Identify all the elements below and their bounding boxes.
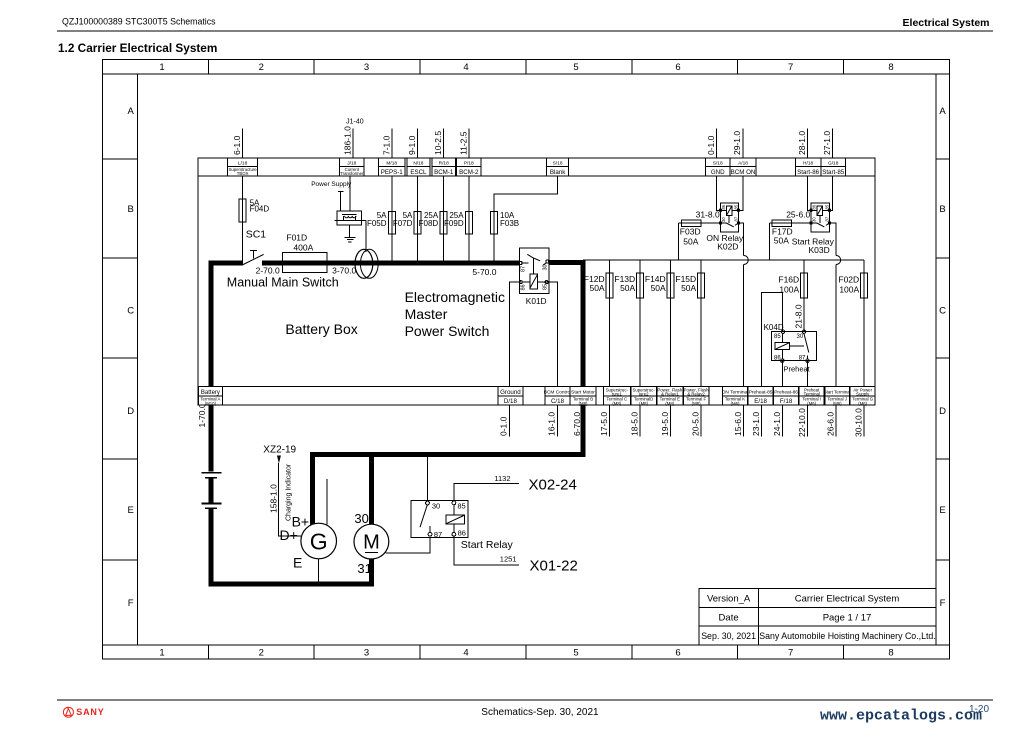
svg-text:H/18: H/18 [803, 160, 813, 166]
svg-text:29-1.0: 29-1.0 [732, 131, 742, 155]
svg-text:87: 87 [799, 356, 806, 362]
svg-text:BCM-2: BCM-2 [459, 169, 479, 176]
title block table [699, 589, 936, 645]
svg-text:Start Terminal: Start Terminal [824, 390, 851, 395]
svg-text:85: 85 [824, 204, 829, 209]
wire K02D pin87 to ON Terminal with hop [739, 223, 744, 256]
wire K01D pin85 to BCM Control cell [547, 282, 558, 437]
svg-text:10-2.5: 10-2.5 [433, 131, 443, 155]
svg-text:BCM Control: BCM Control [544, 390, 571, 396]
column dividers top band [208, 60, 843, 75]
svg-text:F08D: F08D [419, 219, 439, 228]
svg-text:Sany Automobile Hoisting Machi: Sany Automobile Hoisting Machinery Co.,L… [759, 631, 936, 641]
svg-text:(M8): (M8) [665, 401, 674, 406]
svg-text:1132: 1132 [494, 474, 510, 483]
svg-text:F07D: F07D [393, 219, 413, 228]
fuse F04D wire [241, 158, 243, 262]
grid row letters left [127, 106, 134, 609]
svg-text:F: F [940, 598, 946, 609]
svg-text:5: 5 [573, 62, 578, 73]
svg-text:27-1.0: 27-1.0 [822, 131, 832, 155]
svg-text:X02-24: X02-24 [529, 476, 577, 493]
grommet through battery box wall [355, 249, 373, 278]
wire stub 29-1.0 [742, 129, 744, 160]
fuse F17D [772, 220, 791, 227]
svg-text:50A: 50A [683, 236, 698, 246]
svg-text:15-6.0: 15-6.0 [733, 412, 743, 436]
svg-text:85: 85 [774, 334, 781, 340]
wire Start-85 to K03D [830, 158, 833, 210]
svg-text:23-1.0: 23-1.0 [751, 412, 761, 436]
svg-text:D: D [127, 406, 134, 417]
svg-text:Date: Date [719, 612, 739, 623]
start relay pin 30 [426, 501, 430, 505]
svg-text:5: 5 [573, 648, 578, 659]
fuse F01D 400A [282, 253, 327, 273]
start relay blade [420, 505, 427, 527]
svg-text:K02D: K02D [717, 242, 738, 252]
fuse F12D wire [608, 260, 610, 437]
svg-text:85: 85 [542, 284, 548, 290]
fuse F02D wire [863, 260, 865, 437]
svg-text:G: G [310, 529, 328, 555]
fuse F07D wire [417, 158, 419, 262]
svg-text:186-1.0: 186-1.0 [342, 126, 352, 155]
wire 1132 to X02-24 [454, 484, 519, 501]
connector P/18 BCM-2 [457, 158, 482, 176]
battery cell link [209, 478, 214, 502]
svg-text:E/18: E/18 [754, 398, 767, 405]
thick bus K01D to corner [548, 260, 585, 265]
svg-text:A: A [128, 106, 135, 117]
svg-text:4: 4 [463, 648, 468, 659]
svg-text:5-70.0: 5-70.0 [472, 267, 496, 277]
svg-text:A: A [939, 106, 946, 117]
svg-text:Manual Main Switch: Manual Main Switch [227, 276, 339, 290]
fuse F05D wire [391, 158, 393, 262]
bottom connector strip top line [198, 386, 875, 388]
svg-text:F03D: F03D [680, 226, 701, 236]
relay K01D box [519, 248, 548, 294]
svg-text:J/18: J/18 [347, 160, 356, 166]
relay K03D box [811, 203, 830, 232]
svg-text:X01-22: X01-22 [530, 557, 578, 574]
svg-text:M: M [363, 532, 380, 554]
svg-text:C: C [127, 306, 134, 317]
svg-text:F04D: F04D [250, 205, 270, 214]
svg-text:6: 6 [675, 648, 680, 659]
svg-text:QZJ100000389 STC300T5 Schemati: QZJ100000389 STC300T5 Schematics [62, 17, 216, 27]
fuse F04D [239, 199, 246, 222]
start relay pin 85 [452, 501, 456, 505]
grid column numbers bottom [159, 648, 893, 659]
svg-text:(M6): (M6) [807, 401, 816, 406]
fuse F03D [682, 220, 701, 227]
drawing frame outer border [103, 60, 950, 660]
wire K04D pin86 to Preheat-86 cell [781, 361, 783, 437]
bottom connector Power Flash Relay2 Terminal F [683, 387, 709, 406]
power supply terminal tick [338, 190, 343, 192]
generator G [301, 523, 337, 559]
svg-text:25-6.0: 25-6.0 [786, 209, 810, 219]
start relay pin 87 [428, 532, 432, 536]
svg-text:Power Switch: Power Switch [405, 323, 490, 339]
starter motor M [354, 524, 389, 559]
relay K04D coil [775, 342, 789, 349]
fuse F09D [465, 212, 472, 235]
svg-text:86: 86 [521, 284, 527, 290]
svg-text:1251: 1251 [500, 554, 517, 563]
wire stub 9-1.0 [417, 129, 419, 160]
grid column numbers top [159, 62, 893, 73]
svg-text:(M8): (M8) [579, 401, 588, 406]
svg-text:Page 1 / 17: Page 1 / 17 [823, 612, 872, 623]
wire stub 7-1.0 [391, 129, 393, 160]
battery plate long top [201, 472, 221, 474]
svg-text:S/18: S/18 [713, 160, 723, 166]
grid row letters right [939, 106, 946, 609]
relay K01D pin 85 [545, 281, 548, 284]
svg-text:Sep. 30, 2021: Sep. 30, 2021 [701, 631, 756, 641]
fuse F12D [606, 273, 613, 298]
bottom connector ON Terminal K [722, 387, 749, 406]
svg-text:S/18: S/18 [553, 160, 563, 166]
SANY logo mark [63, 707, 73, 717]
relay K01D pin 87 [519, 262, 522, 265]
svg-text:D: D [939, 406, 946, 417]
svg-text:2-70.0: 2-70.0 [256, 265, 280, 275]
svg-text:9-1.0: 9-1.0 [407, 135, 417, 155]
svg-text:(M8): (M8) [639, 401, 648, 406]
svg-text:100A: 100A [839, 284, 859, 294]
connector J/18 Current Transformer [340, 158, 364, 176]
svg-text:(M6): (M6) [731, 401, 740, 406]
svg-text:0-1.0: 0-1.0 [706, 135, 716, 155]
svg-text:E: E [293, 555, 302, 571]
svg-text:6: 6 [675, 62, 680, 73]
svg-text:3: 3 [364, 648, 369, 659]
svg-text:L/18: L/18 [238, 160, 248, 166]
svg-text:ON Terminal: ON Terminal [722, 390, 749, 396]
svg-text:7: 7 [788, 62, 793, 73]
wire 25-6.0 [772, 222, 811, 224]
ground symbol [348, 225, 350, 238]
bottom connector Start Terminal J [824, 387, 851, 406]
bottom connector BCM Control C/18 [544, 387, 571, 406]
svg-text:K04D: K04D [764, 323, 784, 332]
fuse F16D [801, 273, 808, 298]
svg-text:ESCL: ESCL [410, 169, 427, 176]
drawing frame inner border [138, 74, 937, 645]
wire K04D pin87 to Preheat Terminal cell [807, 361, 809, 437]
svg-text:C: C [939, 306, 946, 317]
svg-text:J1-40: J1-40 [346, 118, 364, 125]
svg-text:16-1.0: 16-1.0 [547, 412, 557, 436]
svg-text:Terminal: Terminal [804, 391, 820, 396]
svg-text:B: B [128, 204, 134, 215]
svg-text:24-1.0: 24-1.0 [772, 412, 782, 436]
svg-text:31-8.0: 31-8.0 [696, 209, 720, 219]
svg-text:1-70.0: 1-70.0 [197, 403, 207, 427]
svg-text:F03B: F03B [500, 219, 519, 228]
svg-text:F05D: F05D [367, 219, 387, 228]
thick wire start motor cable vertical [581, 260, 586, 457]
svg-text:Supply: Supply [856, 391, 870, 396]
svg-text:M/18: M/18 [386, 160, 397, 166]
svg-text:(M8): (M8) [612, 401, 621, 406]
relay K04D pins [781, 330, 784, 333]
connector S/18 GND [706, 158, 731, 176]
svg-text:D+: D+ [280, 527, 298, 543]
relay K03D coil [817, 206, 822, 216]
svg-text:1: 1 [159, 648, 164, 659]
wire stub 11-2.5 [468, 129, 470, 160]
svg-text:2: 2 [259, 648, 264, 659]
fuse F03B wire [494, 172, 558, 262]
wire 158-1.0 to D+ [279, 463, 301, 536]
fuse F17D feed from rail [768, 223, 770, 260]
svg-text:158-1.0: 158-1.0 [269, 484, 279, 513]
svg-text:P/18: P/18 [464, 160, 474, 166]
svg-text:BCM-1: BCM-1 [434, 169, 454, 176]
connector R/18 BCM-1 [432, 158, 456, 176]
svg-text:50A: 50A [620, 283, 635, 293]
svg-text:ture1: ture1 [612, 391, 622, 396]
relay K02D pins [719, 209, 721, 211]
svg-text:(M10): (M10) [205, 401, 217, 406]
start relay box [411, 501, 468, 538]
bottom connector Battery Terminal A [198, 387, 222, 406]
svg-text:BCM ON: BCM ON [731, 169, 756, 176]
svg-text:30: 30 [797, 334, 804, 340]
svg-text:30: 30 [354, 511, 368, 526]
svg-text:17-5.0: 17-5.0 [599, 412, 609, 436]
feed rail after master switch [583, 259, 864, 261]
svg-text:30: 30 [432, 502, 440, 511]
svg-text:86: 86 [774, 356, 781, 362]
fuse F15D wire [700, 260, 702, 437]
svg-text:1.2 Carrier Electrical System: 1.2 Carrier Electrical System [58, 41, 217, 55]
bottom connector Ground D/18 [498, 387, 523, 406]
wire GND to K02D [716, 158, 720, 210]
wire K03D pin87 to Start Terminal with hop [830, 223, 837, 256]
bottom connector Superstructure1 Terminal C [603, 387, 630, 406]
svg-text:XZ2-19: XZ2-19 [263, 445, 296, 456]
svg-text:50A: 50A [774, 235, 789, 245]
wire stub 10-2.5 [443, 129, 445, 160]
wire 1251 to X01-22 [454, 536, 519, 565]
fuse F07D [414, 212, 421, 235]
wire stub 0-1.0 top [715, 129, 717, 160]
relay K04D box [772, 332, 817, 361]
svg-text:30-10.0: 30-10.0 [854, 408, 864, 437]
svg-text:85: 85 [733, 204, 738, 209]
wire rail to start relay pin30 [427, 457, 429, 502]
connector M/18 PEPS-1 [378, 158, 405, 176]
svg-text:Start Relay: Start Relay [461, 539, 514, 551]
svg-text:Start-85: Start-85 [822, 169, 845, 176]
bottom connector Superstructure2 Terminal D [631, 387, 656, 406]
wire G to ground rail [318, 559, 320, 584]
bottom connector Preheat-85 E/18 [748, 387, 773, 406]
svg-text:Preheat-85: Preheat-85 [749, 390, 773, 396]
footer rule [57, 699, 993, 701]
svg-text:SC1: SC1 [246, 229, 267, 241]
svg-text:50A: 50A [681, 283, 696, 293]
svg-text:86: 86 [811, 204, 816, 209]
svg-text:E: E [939, 505, 945, 516]
bottom connector Air Power Supply Terminal G [850, 387, 875, 406]
fuse F03D feed from rail [678, 223, 680, 260]
svg-text:F02D: F02D [838, 274, 859, 284]
connector G/18 Start-85 [821, 158, 846, 176]
svg-text:31: 31 [357, 561, 371, 576]
svg-text:Carrier Electrical System: Carrier Electrical System [795, 594, 900, 605]
wire stub 186-1.0 [352, 129, 354, 172]
fuse F15D [698, 273, 705, 298]
svg-text:PEPS-1: PEPS-1 [381, 169, 404, 176]
svg-text:ture2: ture2 [639, 391, 649, 396]
svg-text:85: 85 [457, 502, 465, 511]
thick bus switch to K01D [262, 261, 520, 266]
svg-text:K03D: K03D [809, 245, 830, 255]
relay K01D coil [530, 274, 538, 289]
svg-text:F09D: F09D [444, 219, 464, 228]
bottom connector Power Flash Relay1 Terminal E [657, 387, 683, 406]
svg-text:SANY: SANY [76, 707, 104, 717]
current transformer box [337, 211, 362, 225]
svg-text:21-8.0: 21-8.0 [793, 304, 803, 328]
svg-text:Transformer: Transformer [340, 171, 364, 176]
svg-text:86: 86 [721, 204, 726, 209]
svg-text:400A: 400A [293, 243, 313, 253]
wire K01D pin86 to Ground cell [510, 282, 521, 437]
svg-text:30: 30 [811, 217, 816, 222]
relay K02D box [721, 203, 739, 232]
thick wire B+ drop to G [310, 452, 315, 525]
svg-text:22-10.0: 22-10.0 [797, 408, 807, 437]
svg-text:Preheat-86: Preheat-86 [774, 390, 798, 396]
svg-text:Preheat: Preheat [784, 364, 811, 373]
svg-text:87: 87 [434, 530, 442, 539]
thick wire lower rail to B+ [310, 452, 585, 457]
fuse F05D [388, 212, 395, 235]
svg-text:Start Motor: Start Motor [571, 390, 595, 396]
bottom connector Preheat Terminal I [799, 387, 824, 406]
wire BCM ON to K02D [739, 158, 744, 210]
header rule [57, 30, 993, 32]
svg-text:R/18: R/18 [439, 160, 449, 166]
wire 31-8.0 [681, 222, 721, 224]
svg-text:Blank: Blank [550, 169, 566, 176]
svg-text:87: 87 [521, 266, 527, 272]
svg-text:2: 2 [259, 62, 264, 73]
svg-text:C/18: C/18 [551, 398, 565, 405]
svg-text:E: E [128, 505, 134, 516]
fuse F14D [667, 273, 674, 298]
thick bus battery to switch [209, 261, 244, 266]
battery plate short top [205, 477, 217, 479]
wire J/18 to transformer [349, 172, 351, 211]
relay K04D blade [804, 333, 809, 352]
thick bottom ground rail [209, 582, 374, 587]
battery plate short bottom [205, 507, 217, 509]
relay K02D coil [727, 206, 732, 216]
svg-text:8: 8 [888, 62, 893, 73]
svg-text:& Relay1: & Relay1 [661, 391, 679, 396]
wire transformer to bus [335, 219, 366, 221]
wire Start-86 to K03D [807, 158, 811, 210]
svg-text:20-5.0: 20-5.0 [691, 412, 701, 436]
svg-text:50A: 50A [651, 283, 666, 293]
svg-text:(M8): (M8) [692, 401, 701, 406]
fuse F08D [440, 212, 447, 235]
svg-text:87: 87 [824, 216, 829, 221]
svg-text:26-6.0: 26-6.0 [826, 412, 836, 436]
wire stub 27-1.0 [832, 129, 834, 160]
circuit enclosure box [198, 158, 875, 405]
fuse F08D wire [443, 158, 445, 262]
thick wire drop to M [369, 452, 374, 525]
svg-text:Electromagnetic: Electromagnetic [405, 289, 505, 305]
thick wire battery negative [209, 509, 214, 586]
svg-text:(M6): (M6) [858, 401, 867, 406]
svg-text:(M6): (M6) [833, 401, 842, 406]
wire stub 6-1.0 [241, 129, 243, 160]
connector N/18 ESCL [407, 158, 430, 176]
row dividers left band [103, 159, 138, 560]
svg-text:K01D: K01D [526, 296, 547, 306]
arrow head [277, 456, 281, 464]
svg-text:4: 4 [463, 62, 468, 73]
row dividers right band [936, 159, 950, 560]
svg-text:19-5.0: 19-5.0 [660, 412, 670, 436]
top connector strip bottom line [198, 175, 875, 177]
svg-text:1: 1 [159, 62, 164, 73]
connector S/18 Blank [547, 158, 569, 176]
frame corner ties [103, 73, 138, 75]
start relay pin 86 [452, 532, 456, 536]
relay K04D armature [789, 345, 804, 347]
svg-text:8: 8 [888, 648, 893, 659]
svg-text:N/18: N/18 [413, 160, 423, 166]
connector A/18 BCM ON [730, 158, 756, 176]
svg-text:Schematics-Sep. 30, 2021: Schematics-Sep. 30, 2021 [481, 707, 599, 718]
svg-text:7-1.0: 7-1.0 [381, 135, 391, 155]
fuse F14D wire [670, 260, 672, 437]
fuse F13D wire [639, 260, 641, 437]
svg-text:F01D: F01D [286, 232, 307, 242]
fuse F02D [861, 273, 868, 298]
svg-text:G/18: G/18 [828, 160, 839, 166]
bottom connector Start Motor Terminal B [570, 387, 596, 406]
wire K04D pin85 to Preheat-85 cell [762, 293, 783, 437]
thick wire battery positive drop [209, 261, 214, 472]
svg-text:& Relay2: & Relay2 [687, 391, 705, 396]
svg-text:0-1.0: 0-1.0 [499, 416, 509, 436]
svg-text:Charging Indicator: Charging Indicator [285, 463, 292, 521]
svg-text:Start-86: Start-86 [797, 169, 820, 176]
start relay coil [446, 515, 465, 524]
relay K01D pin 30 [546, 260, 549, 263]
svg-text:3-70.0: 3-70.0 [332, 265, 356, 275]
svg-text:30: 30 [721, 217, 726, 222]
fuse F16D wire [803, 260, 805, 332]
svg-text:3: 3 [364, 62, 369, 73]
svg-text:F: F [128, 598, 134, 609]
svg-text:www.epcatalogs.com: www.epcatalogs.com [820, 708, 982, 725]
svg-text:Battery Box: Battery Box [285, 321, 357, 337]
